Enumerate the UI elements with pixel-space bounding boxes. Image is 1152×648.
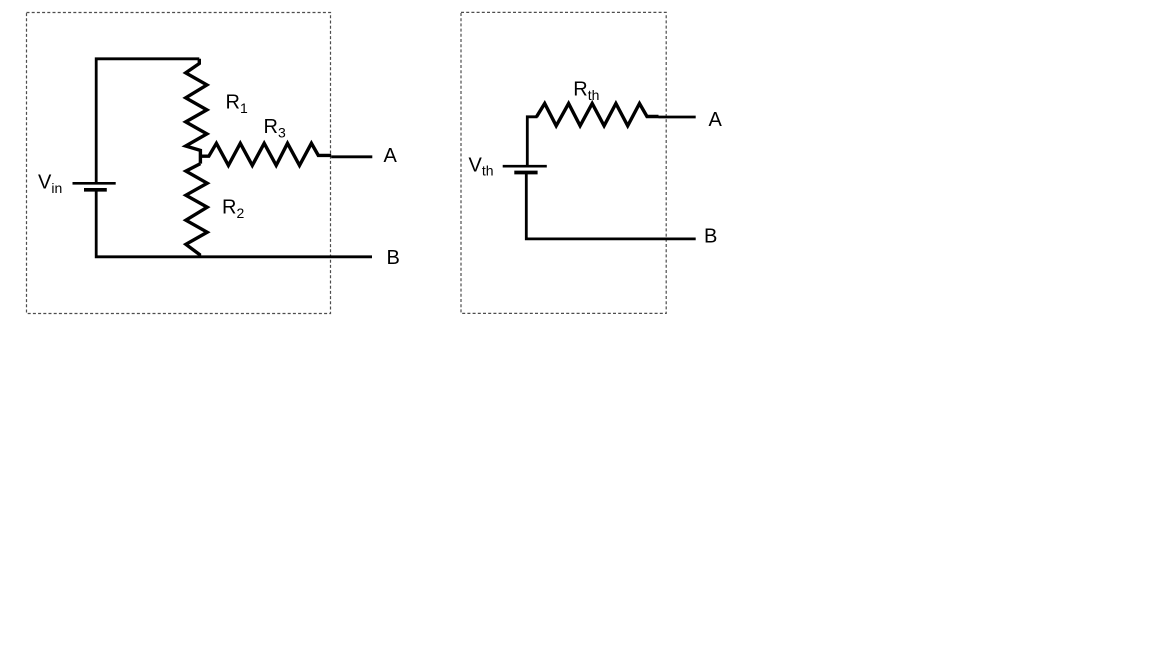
wire: Vin bottom plate down and bottom rail to node B — [96, 190, 372, 257]
svg-text:A: A — [709, 109, 723, 131]
resistor Rth (horizontal zigzag) — [537, 104, 659, 126]
wire: Vin top plate up and across to R1 top — [96, 59, 199, 184]
battery V_in long plate — [73, 182, 116, 185]
battery V_in short plate — [84, 188, 107, 192]
resistor R1 (vertical zigzag) — [186, 59, 207, 164]
battery V_th long plate — [503, 165, 547, 168]
resistor R3 (horizontal zigzag) — [200, 143, 331, 165]
battery V_th short plate — [514, 171, 537, 175]
wire: Rth to terminal A — [659, 116, 696, 119]
wire: R3 to terminal A — [331, 155, 372, 158]
svg-text:A: A — [384, 145, 398, 167]
resistor R2 (vertical zigzag) — [186, 164, 207, 257]
dashed box: original circuit — [27, 13, 331, 314]
dashed box: Thevenin equivalent — [461, 12, 666, 313]
svg-text:B: B — [387, 247, 400, 269]
wire: Vth bottom plate down and across to terminal B — [526, 173, 695, 239]
svg-text:B: B — [704, 226, 717, 248]
wire: Vth top plate up to Rth — [527, 117, 537, 166]
